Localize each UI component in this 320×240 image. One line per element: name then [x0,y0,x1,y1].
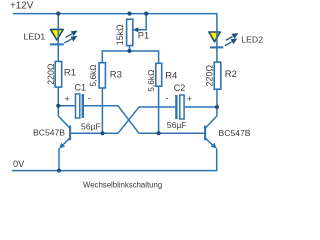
junction dot: Q2 collector / C2 [215,105,219,109]
svg-text:C1: C1 [75,82,87,92]
potentiometer P1 wiper arrowhead [133,27,138,32]
junction dot: node under P1 [127,49,131,53]
LED1 cathode bar [50,43,64,45]
junction dot: Q1 collector / C1 [56,104,60,108]
capacitor C1 negative plate (solid) [82,94,84,118]
junction dot: R3 / Q1 base line [100,131,104,135]
wire: left column from +12V rail through LED1 to R1 [57,14,59,62]
svg-text:-: - [88,93,91,104]
resistor R4 (box) [156,63,162,86]
svg-text:15kΩ: 15kΩ [115,24,125,45]
junction dot: Q1 emitter / 0V rail [57,169,61,173]
LED1 light arrow lower [64,36,77,43]
wire: R4 bottom to Q2 base node [158,86,160,133]
junction dot: +12V rail / P1 top [127,12,131,16]
LED1 light arrow upper [66,31,78,38]
svg-text:5,6kΩ: 5,6kΩ [146,70,156,92]
svg-text:220Ω: 220Ω [46,63,56,85]
wire: 0V rail with right corner up to Q2 emitter [12,148,217,170]
wire: C2 right plate to Q2 collector column [184,106,217,108]
svg-text:R3: R3 [110,69,122,80]
wire: node line from P1 bottom to R3 and R4 tops [102,51,158,63]
junction dot: +12V rail / P1 wiper feed [144,12,148,16]
svg-text:-: - [166,93,169,104]
svg-text:0V: 0V [13,159,25,169]
transistor Q1 BC547B (left, mirrored: base bar with leads to the left) [58,116,70,149]
LED2 (yellow triangle body) [209,32,220,42]
svg-text:+: + [187,94,193,105]
svg-text:C2: C2 [174,83,186,93]
svg-text:220Ω: 220Ω [205,65,215,87]
LED2 light arrow lower [225,39,238,46]
svg-text:P1: P1 [138,30,149,40]
junction dot: +12V rail / LED1 column [56,12,60,16]
svg-text:LED2: LED2 [241,35,263,45]
capacitor C2 positive plate (hollow) [180,95,184,119]
wire: P1 bottom stub to node [129,46,131,52]
transistor Q2 BC547B (right: base bar with leads to the right) [205,116,217,149]
resistor R2 (box) [214,62,221,89]
junction dot: R4 / Q2 base line [157,131,161,135]
svg-text:R1: R1 [64,68,76,79]
wire: C2 left plate crossing down to Q1 base [71,107,175,133]
wire: Q1 emitter down to 0V rail [58,148,60,170]
capacitor C1 positive plate (hollow) [76,94,80,118]
wire: R1 bottom to Q1 collector (through C1 junction) [57,87,59,116]
wire: +12V rail with right corner down to LED2/R2 column [13,14,217,63]
wire: C1 right plate crossing down to Q2 base [84,106,204,134]
LED1 (yellow triangle body) [51,29,64,40]
svg-text:BC547B: BC547B [219,128,251,138]
svg-text:LED1: LED1 [24,32,46,42]
resistor R3 (box) [99,63,105,88]
wire: P1 wiper feed from +12V rail [135,14,147,30]
capacitor C2 negative plate (solid) [175,95,177,119]
svg-text:Wechselblinkschaltung: Wechselblinkschaltung [83,180,162,189]
svg-text:56µF: 56µF [167,120,187,130]
svg-text:5,6kΩ: 5,6kΩ [88,64,98,86]
svg-text:R2: R2 [225,69,237,80]
potentiometer P1 (box) [127,19,133,45]
svg-text:BC547B: BC547B [33,128,65,138]
svg-text:56µF: 56µF [81,121,101,131]
wire: R3 bottom to Q1 base node [101,88,103,133]
resistor R1 (box) [55,61,62,87]
LED2 light arrow upper [226,33,239,40]
LED2 cathode bar [210,46,223,48]
svg-text:+12V: +12V [10,1,34,12]
wire: R2 bottom to Q2 collector (through C2 junction) [216,89,218,116]
svg-text:+: + [64,94,70,105]
svg-text:R4: R4 [165,71,177,82]
wire: Q1 collector junction to C1 left plate [58,105,75,107]
